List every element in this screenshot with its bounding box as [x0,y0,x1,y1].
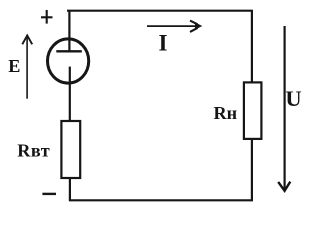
battery plate inside source [56,50,82,52]
wire bottom horizontal [69,199,253,201]
arrow for voltage U [278,26,290,191]
svg-text:Rвт: Rвт [17,140,50,160]
resistor Rn body [244,82,262,138]
EMF source E circle U1 [48,39,89,83]
arrow for current I [147,21,202,32]
svg-text:Rн: Rн [214,103,238,123]
svg-text:I: I [159,31,168,56]
wire Rvt bottom lead [69,177,71,200]
wire source bottom lead to Rvt [69,67,71,122]
wire top horizontal [67,10,253,12]
wire right vertical [251,10,253,200]
plus terminal sign [41,10,53,24]
wire top-left vertical into source [68,10,70,51]
svg-text:U: U [285,86,301,111]
svg-text:E: E [8,56,20,76]
minus terminal sign [42,193,56,195]
arrow for EMF E [22,35,32,98]
resistor Rvt body [61,121,80,178]
